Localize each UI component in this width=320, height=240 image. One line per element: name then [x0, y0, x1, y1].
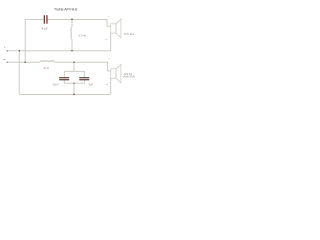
junction: cap block bottom tee	[73, 83, 74, 84]
wire: top rail right segment to tweeter top terminal	[48, 19, 111, 26]
capacitor C3 (shunt right)	[79, 77, 89, 80]
junction: wire1 / vertical A	[18, 50, 19, 51]
tweeter polarity -	[105, 38, 107, 40]
wire: feed vertical B and top rail left segment up to capacitor C1	[25, 19, 43, 62]
wire: input line wire2 left of inductor L2	[7, 61, 40, 63]
junction: rail / cap block	[73, 94, 74, 95]
label - input	[4, 59, 6, 61]
svg-text:8 µF: 8 µF	[42, 26, 48, 30]
speaker U1 tweeter	[111, 19, 121, 38]
speaker U2 woofer	[111, 64, 121, 83]
wire: vertical A from wire1 down to bottom rail	[18, 51, 20, 95]
wire: cap block center drop from wire2	[73, 62, 75, 71]
svg-text:Treble AP4 kHz: Treble AP4 kHz	[54, 7, 78, 11]
junction: top rail / coil L1	[71, 19, 72, 20]
woofer polarity -	[106, 83, 108, 85]
terminal + input	[7, 50, 9, 52]
svg-text:(AWb-SD4): (AWb-SD4)	[123, 76, 135, 79]
junction: wire2 / vertical B	[24, 61, 25, 62]
terminal - input	[7, 62, 9, 64]
wire: tweeter bottom drop	[110, 33, 112, 51]
svg-text:+: +	[4, 45, 6, 49]
wire: cap block bottom tee	[64, 80, 84, 83]
wire: cap block top tee	[64, 71, 84, 77]
wire: wire2 from inductor to woofer top terminal	[55, 62, 111, 71]
svg-text:15µF: 15µF	[53, 83, 59, 87]
background	[0, 0, 141, 106]
wire: cap block drop to rail	[73, 83, 75, 94]
wire: woofer bottom drop to rail	[110, 78, 112, 94]
capacitor C2 (shunt left)	[59, 77, 69, 80]
svg-text:0,7mH: 0,7mH	[78, 34, 86, 38]
capacitor C1 (series, top rail)	[44, 15, 48, 24]
wire: return line wire1 from + terminal to tweeter bottom	[7, 50, 111, 52]
junction: wire1 / coil L1 bottom	[71, 50, 72, 51]
inductor L2 (series, wire2)	[40, 61, 55, 62]
wire: bottom rail	[19, 93, 111, 95]
svg-text:1mH: 1mH	[43, 66, 49, 70]
junction: wire2 / cap block	[73, 61, 74, 62]
svg-text:4µF: 4µF	[89, 83, 94, 87]
inductor L1 (shunt coil, vertical)	[71, 19, 72, 50]
svg-text:AHV 4E1: AHV 4E1	[124, 33, 135, 36]
